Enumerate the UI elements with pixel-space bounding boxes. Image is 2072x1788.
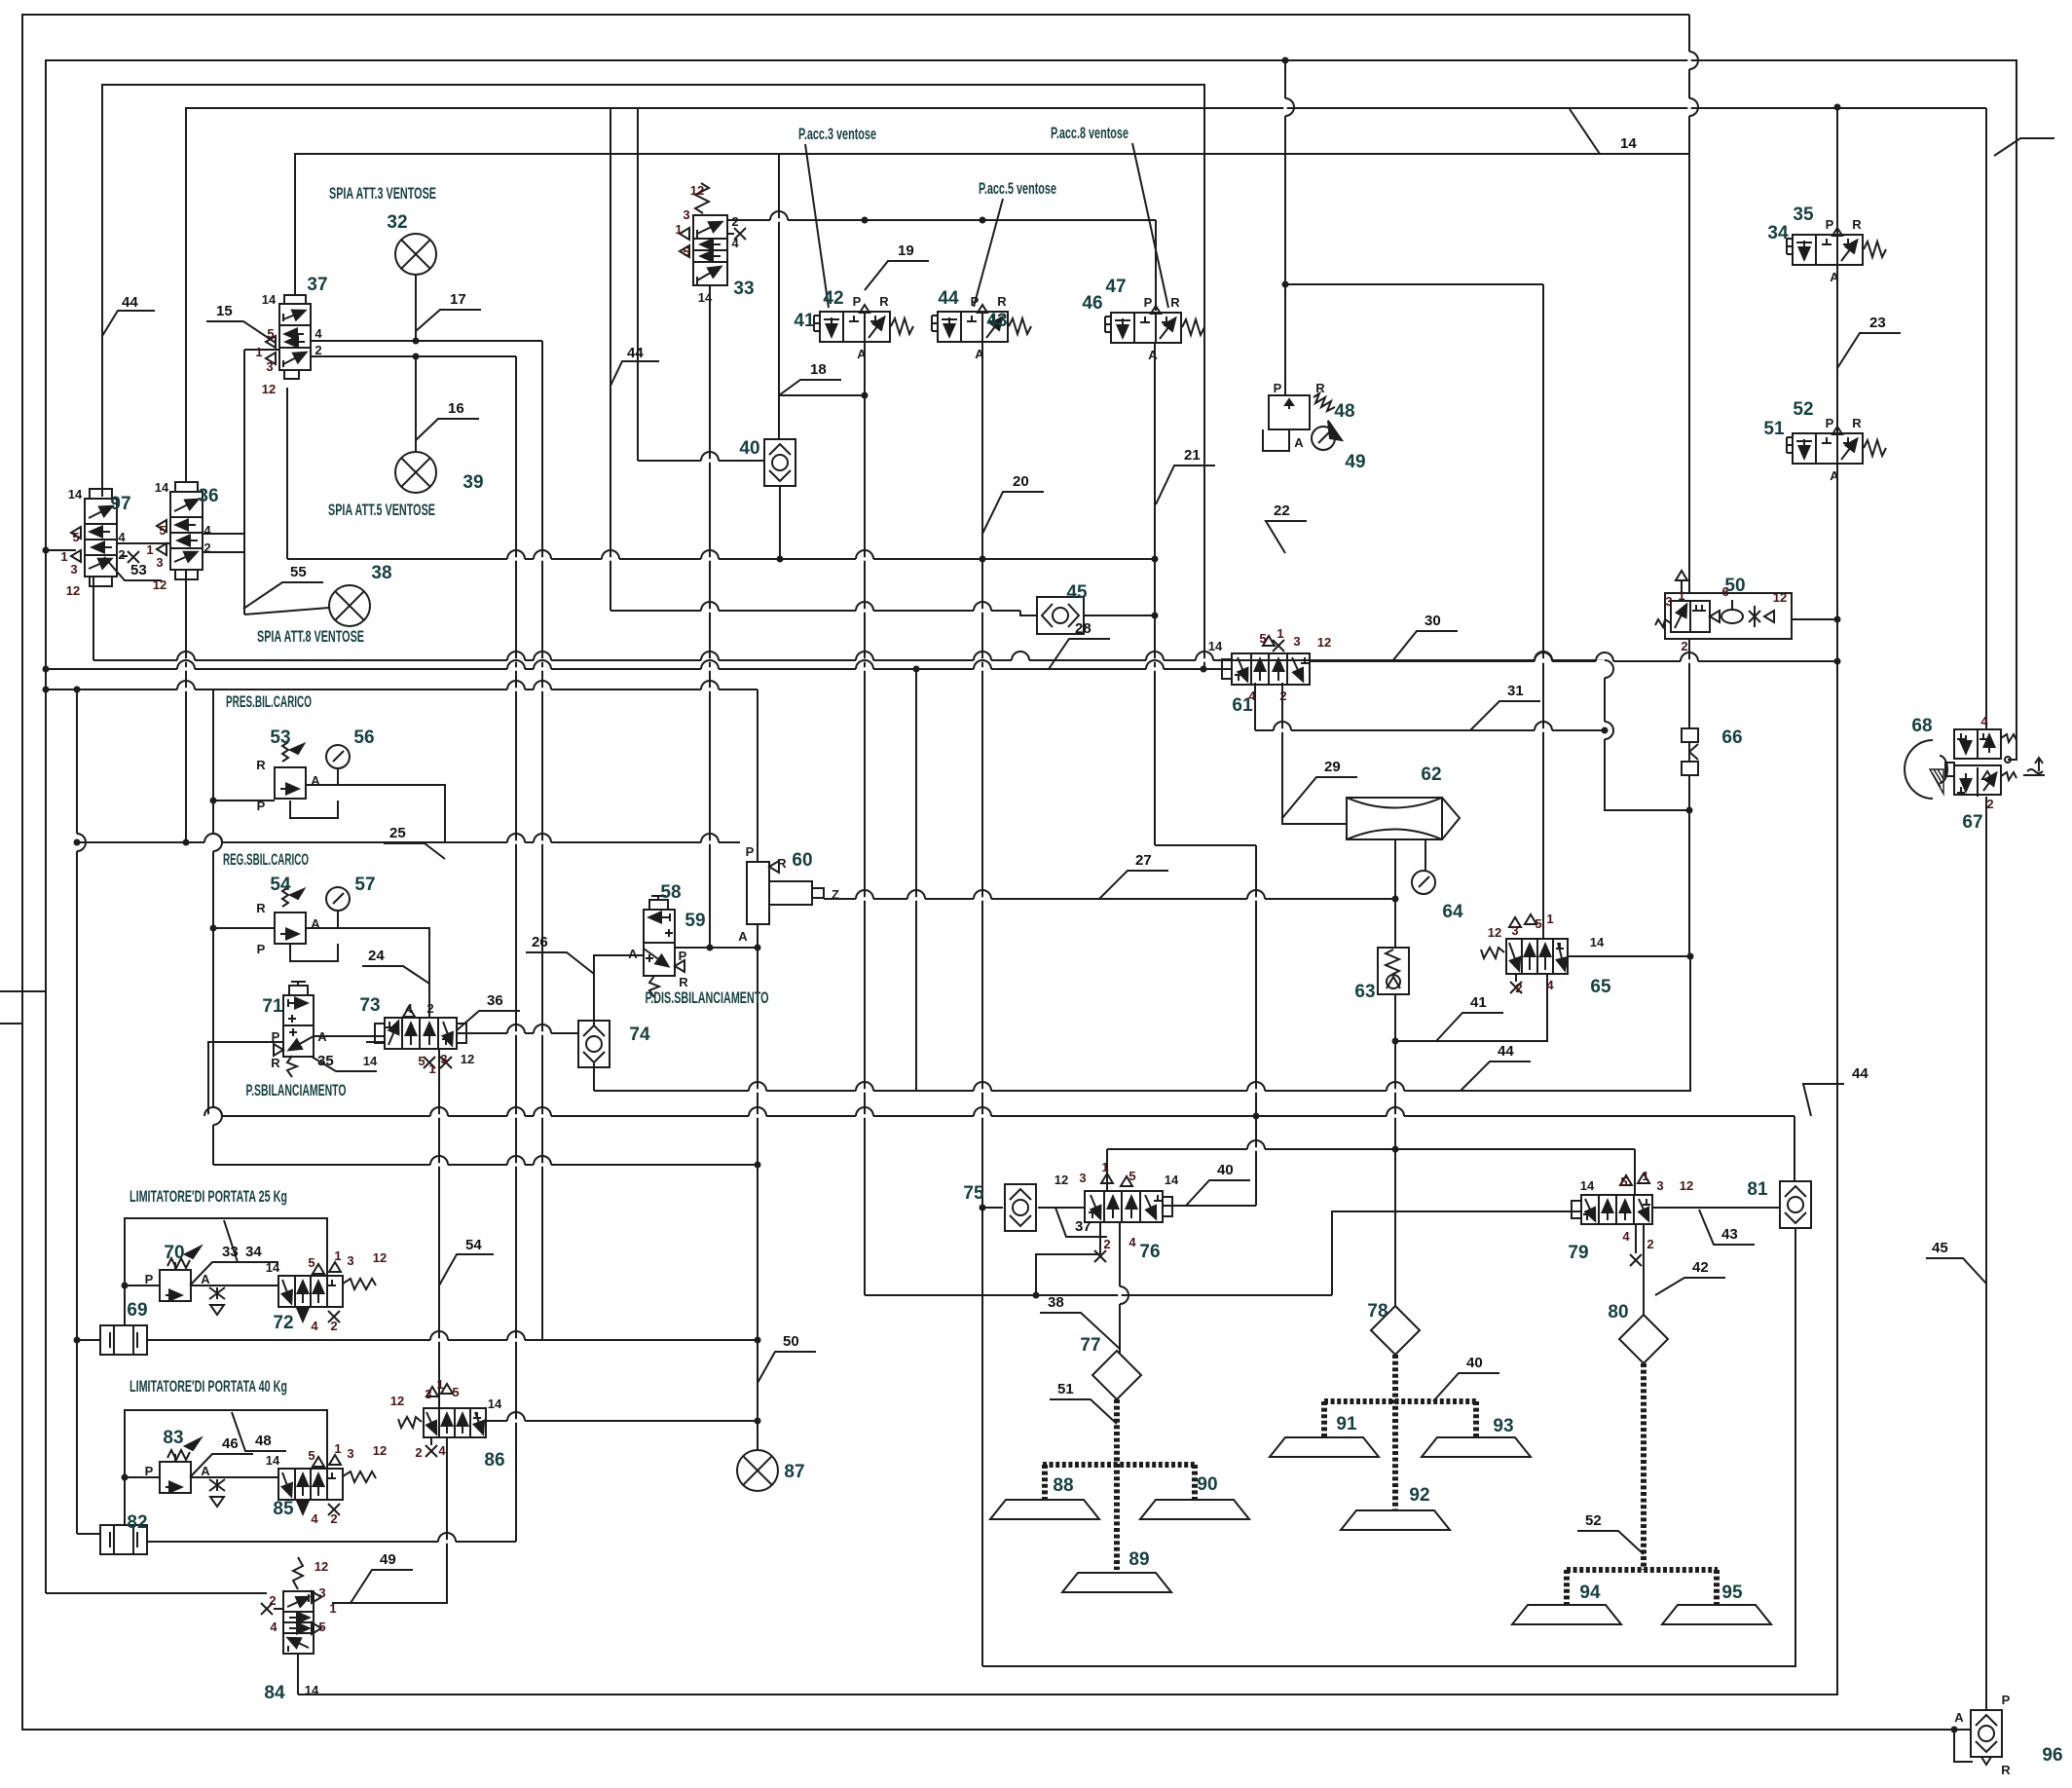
wire valve50 out — [1792, 618, 1837, 620]
wire h1196 — [213, 1164, 758, 1166]
flow control 72-circuit — [209, 1287, 225, 1315]
svg-text:2: 2 — [314, 343, 321, 357]
wire h708 — [46, 689, 758, 690]
svg-text:4: 4 — [1546, 978, 1554, 992]
wire reg54 loop — [290, 944, 338, 961]
svg-text:1: 1 — [329, 1601, 336, 1616]
wire h1240 — [1038, 1207, 1085, 1209]
wire v295 — [286, 388, 288, 559]
wire frame 4 — [186, 108, 1986, 482]
svg-text:3: 3 — [1511, 923, 1518, 938]
svg-text:40: 40 — [739, 438, 759, 459]
svg-text:41: 41 — [1470, 994, 1487, 1011]
svg-text:17: 17 — [450, 291, 466, 308]
svg-text:P.acc.3 ventose: P.acc.3 ventose — [798, 125, 876, 143]
venturi 62 — [1347, 798, 1460, 839]
lamp 87 — [737, 1450, 778, 1491]
svg-text:38: 38 — [371, 563, 391, 583]
wire h679 — [1310, 660, 1837, 662]
svg-text:48: 48 — [1334, 401, 1354, 422]
svg-text:2: 2 — [203, 540, 210, 555]
svg-text:56: 56 — [353, 727, 374, 748]
svg-text:1: 1 — [334, 1248, 341, 1263]
svg-text:62: 62 — [1421, 764, 1441, 785]
valve 43 44 (3/2 solenoid) — [932, 305, 1031, 342]
svg-text:P: P — [853, 294, 862, 309]
wire v1433 — [1394, 994, 1396, 1307]
svg-text:P.DIS.SBILANCIAMENTO: P.DIS.SBILANCIAMENTO — [646, 988, 769, 1007]
svg-text:1: 1 — [1642, 1169, 1648, 1183]
cup 95 — [1662, 1605, 1771, 1624]
rotary valve 67 68 — [1905, 729, 2045, 799]
wire h1517 — [125, 1476, 160, 1478]
svg-text:1: 1 — [255, 345, 262, 359]
svg-text:4: 4 — [270, 1620, 277, 1634]
svg-text:P: P — [1826, 416, 1834, 430]
svg-text:R: R — [2001, 1763, 2011, 1777]
svg-text:1: 1 — [1678, 588, 1684, 603]
cup 93 — [1422, 1437, 1531, 1457]
svg-text:36: 36 — [487, 992, 503, 1009]
svg-text:P: P — [2002, 1693, 2011, 1707]
wire h865 — [77, 841, 740, 843]
svg-text:4: 4 — [311, 1319, 318, 1333]
svg-text:76: 76 — [1139, 1242, 1160, 1262]
svg-text:12: 12 — [1054, 1173, 1068, 1187]
wire h1240 — [982, 1207, 1003, 1209]
svg-text:4: 4 — [1128, 1235, 1136, 1249]
svg-text:R: R — [256, 758, 266, 772]
wire v655 — [637, 108, 639, 461]
svg-text:96: 96 — [2042, 1745, 2062, 1766]
valve 61 (5/2 horizontal) — [1222, 636, 1310, 685]
svg-text:A: A — [1954, 1710, 1964, 1725]
wire h1320 — [125, 1285, 160, 1286]
wire v800 — [778, 154, 780, 440]
svg-text:A: A — [975, 347, 984, 361]
wire valve60 P riser — [757, 689, 758, 862]
svg-text:R: R — [777, 856, 787, 871]
svg-text:87: 87 — [784, 1462, 804, 1482]
svg-text:2: 2 — [118, 547, 125, 562]
filter 78 — [1371, 1306, 1420, 1355]
regulator 54 — [275, 887, 306, 944]
wire h359 — [244, 349, 279, 351]
svg-text:1: 1 — [436, 1377, 443, 1392]
valve 97 (5/2 vertical) — [71, 489, 139, 586]
check valve 74 — [578, 1021, 610, 1067]
svg-text:29: 29 — [1324, 759, 1341, 775]
svg-text:2: 2 — [269, 1593, 276, 1608]
leader lines for P.acc texts — [805, 143, 1168, 308]
wire v1735 — [1688, 639, 1690, 728]
svg-text:4: 4 — [311, 1511, 318, 1526]
svg-text:4: 4 — [1248, 689, 1256, 703]
svg-text:50: 50 — [783, 1333, 799, 1350]
svg-text:R: R — [1852, 416, 1862, 430]
svg-text:3: 3 — [1079, 1171, 1086, 1185]
valve 85 (5/2 horizontal spring right) — [278, 1455, 376, 1515]
svg-text:12: 12 — [390, 1394, 404, 1408]
svg-text:2: 2 — [330, 1511, 337, 1526]
svg-text:R: R — [997, 294, 1007, 309]
leader number labels — [102, 109, 2054, 1603]
svg-text:59: 59 — [684, 911, 705, 931]
cup 92 — [1341, 1510, 1450, 1530]
wire bus1330 left half — [865, 1294, 1332, 1296]
wire wire valve67 to check96 — [1985, 797, 1987, 1711]
svg-text:5: 5 — [1128, 1169, 1135, 1183]
svg-text:SPIA ATT.3 VENTOSE: SPIA ATT.3 VENTOSE — [329, 184, 436, 203]
wire valve59 A to check74 — [594, 955, 644, 1025]
valve 34 35 (3/2 solenoid) — [1787, 228, 1886, 265]
wire valve76 pilot wire — [1163, 1205, 1256, 1207]
wire h1376 — [147, 1339, 758, 1341]
wire lamp32 drop — [415, 275, 417, 341]
svg-text:26: 26 — [532, 934, 548, 950]
wire h406 — [779, 394, 865, 396]
cylinder 69 — [100, 1325, 147, 1355]
svg-text:71: 71 — [262, 996, 283, 1017]
svg-text:LIMITATORE′DI PORTATA 25 Kg: LIMITATORE′DI PORTATA 25 Kg — [129, 1187, 287, 1206]
wire v1150 — [1119, 1222, 1121, 1353]
svg-text:28: 28 — [1075, 620, 1091, 637]
svg-text:P: P — [971, 294, 980, 309]
wire frame 5 to valve37 pilot — [295, 154, 1689, 295]
check valve 45 — [1037, 597, 1084, 634]
svg-text:97: 97 — [110, 494, 130, 514]
svg-text:R: R — [879, 294, 889, 309]
svg-text:A: A — [1148, 348, 1158, 362]
wire h1064 — [314, 1035, 385, 1037]
wire valve76-2 riser — [1036, 1254, 1100, 1295]
wire v627 — [610, 108, 611, 611]
wire reg53 A wire — [307, 785, 445, 842]
svg-text:55: 55 — [290, 564, 307, 580]
svg-text:44: 44 — [1498, 1043, 1514, 1060]
check valve 40 — [764, 439, 795, 486]
svg-text:P: P — [145, 1464, 154, 1478]
svg-text:1: 1 — [334, 1441, 341, 1456]
svg-text:69: 69 — [127, 1300, 147, 1321]
svg-text:81: 81 — [1747, 1179, 1768, 1200]
svg-text:33: 33 — [222, 1244, 239, 1260]
svg-text:5: 5 — [452, 1385, 459, 1399]
wire left stub b — [0, 1023, 22, 1024]
svg-text:43: 43 — [986, 311, 1007, 331]
wire valve79 pilot wire — [1332, 1211, 1581, 1295]
svg-text:P: P — [257, 942, 266, 956]
wire valve47 P riser — [1155, 220, 1157, 311]
valve 79 (5/2 horizontal mirrored) — [1572, 1173, 1652, 1266]
svg-text:5: 5 — [308, 1448, 314, 1463]
valve 41 42 (3/2 solenoid) — [814, 305, 913, 342]
wire h567 — [203, 551, 244, 553]
regulator 70 — [160, 1247, 201, 1301]
lamp 32 SPIA ATT.3 — [395, 234, 436, 275]
svg-text:P: P — [257, 799, 266, 813]
wire valve60 A — [757, 924, 758, 948]
wire h366 — [311, 355, 516, 357]
svg-text:4: 4 — [405, 1001, 413, 1016]
wire h1459 — [486, 1420, 758, 1422]
svg-text:12: 12 — [373, 1250, 387, 1265]
wire h565 — [46, 549, 76, 551]
svg-text:2: 2 — [1681, 639, 1687, 653]
wire h973 — [675, 947, 758, 949]
svg-text:16: 16 — [448, 400, 464, 417]
svg-text:44: 44 — [938, 288, 959, 309]
svg-text:35: 35 — [317, 1053, 334, 1069]
regulator 48 — [1263, 393, 1342, 451]
svg-text:64: 64 — [1442, 902, 1463, 922]
svg-text:57: 57 — [354, 875, 375, 895]
svg-text:2: 2 — [426, 1001, 433, 1016]
wire wire 41 — [1395, 974, 1547, 1041]
svg-text:1: 1 — [1546, 912, 1553, 926]
svg-text:51: 51 — [1057, 1381, 1074, 1397]
check valve 75 — [1005, 1184, 1036, 1231]
wire lamp39 drop — [415, 356, 417, 452]
wire valve97-2 stub — [121, 555, 128, 557]
svg-text:22: 22 — [1274, 503, 1290, 519]
wire h350 — [311, 340, 542, 342]
svg-text:R: R — [256, 901, 266, 915]
svg-text:2: 2 — [1986, 797, 1993, 811]
svg-text:2: 2 — [330, 1319, 337, 1333]
wire bus678 end corner — [1605, 660, 1689, 810]
svg-text:33: 33 — [733, 279, 754, 299]
svg-text:18: 18 — [810, 361, 827, 378]
wire valve76-2 port — [1099, 1222, 1101, 1254]
svg-text:12: 12 — [690, 183, 704, 198]
svg-text:R: R — [271, 1056, 280, 1070]
svg-text:3: 3 — [347, 1253, 353, 1268]
wire h627 — [610, 610, 1020, 612]
svg-text:38: 38 — [1048, 1294, 1064, 1311]
svg-text:42: 42 — [1692, 1259, 1709, 1276]
svg-text:14: 14 — [1620, 135, 1637, 152]
svg-text:LIMITATORE′DI PORTATA 40 Kg: LIMITATORE′DI PORTATA 40 Kg — [129, 1377, 287, 1396]
svg-text:R: R — [1315, 381, 1325, 395]
valve 76 (5/2 horizontal) — [1085, 1173, 1172, 1262]
svg-text:5: 5 — [318, 1620, 325, 1634]
svg-text:42: 42 — [823, 288, 843, 309]
valve 37 (5/2 vertical) — [266, 295, 311, 379]
svg-text:14: 14 — [698, 290, 713, 305]
svg-text:1: 1 — [1101, 1160, 1108, 1174]
wire box 25kg — [125, 1218, 327, 1326]
svg-text:80: 80 — [1608, 1302, 1628, 1322]
wire cyl82 left wire — [77, 1533, 100, 1535]
svg-text:14: 14 — [488, 1397, 502, 1411]
wire v530 — [515, 356, 517, 1542]
svg-text:44: 44 — [1852, 1065, 1868, 1082]
wire valve61-2 to venturi — [1282, 683, 1347, 824]
lamp 55 SPIA ATT.8 — [329, 585, 370, 626]
svg-text:2: 2 — [731, 214, 738, 229]
gauge 56 — [326, 745, 350, 768]
wire h822 — [213, 800, 275, 801]
svg-text:A: A — [311, 773, 320, 788]
svg-text:37: 37 — [307, 275, 327, 295]
wire v1735 — [1688, 776, 1690, 956]
cup 89 — [1062, 1573, 1171, 1592]
valve 58 59 (3/2 vertical P.DIS.SBIL) — [644, 896, 684, 997]
flow control 85-circuit — [209, 1479, 225, 1507]
svg-text:52: 52 — [1585, 1512, 1602, 1529]
hatched tube group 77: 88 89 90 — [1043, 1399, 1195, 1570]
svg-text:4: 4 — [1622, 1229, 1630, 1244]
wire v1009 — [981, 343, 983, 1666]
svg-text:12: 12 — [1317, 635, 1331, 650]
wire h687 — [46, 668, 1232, 670]
wire h1320 — [191, 1285, 278, 1286]
svg-text:A: A — [317, 1029, 327, 1044]
wire check45 feed elbow — [1020, 611, 1037, 615]
wire v1648 — [1604, 660, 1606, 810]
svg-text:83: 83 — [163, 1428, 183, 1448]
wire valve61-4 drop — [1254, 683, 1256, 730]
svg-text:44: 44 — [627, 345, 644, 361]
wire lamp55 wire — [244, 608, 329, 615]
svg-text:72: 72 — [273, 1313, 293, 1333]
svg-text:A: A — [1830, 468, 1839, 483]
wire h1636 — [46, 1592, 267, 1594]
svg-text:SPIA ATT.5 VENTOSE: SPIA ATT.5 VENTOSE — [328, 501, 435, 519]
wire x1736 corner to bus1120 — [594, 956, 1690, 1091]
svg-text:3: 3 — [440, 1052, 447, 1066]
wire valve73 pilot stub — [366, 1041, 385, 1043]
wire valve79-2 to filter80 — [1643, 1224, 1645, 1315]
svg-text:45: 45 — [1066, 582, 1088, 603]
svg-text:90: 90 — [1197, 1474, 1217, 1495]
wire wire 44 return loop — [982, 1228, 1795, 1666]
svg-text:5: 5 — [267, 326, 274, 341]
wire v79 — [76, 689, 78, 1534]
wire v219 — [212, 689, 214, 1165]
svg-text:A: A — [857, 347, 867, 361]
svg-text:5: 5 — [308, 1255, 314, 1270]
svg-text:3: 3 — [70, 562, 77, 577]
svg-text:3: 3 — [156, 555, 163, 570]
svg-text:P.acc.8 ventose: P.acc.8 ventose — [1051, 124, 1128, 142]
wire h1061 — [457, 1032, 578, 1034]
svg-text:12: 12 — [1773, 590, 1787, 605]
wire venturi left drop — [1394, 839, 1396, 948]
valve 65 (5/2 horizontal spring left) — [1481, 914, 1568, 993]
svg-text:2: 2 — [415, 1445, 422, 1460]
wire x1887 P.acc8 drop c — [298, 463, 1837, 1695]
svg-text:R: R — [679, 975, 688, 989]
svg-text:14: 14 — [1580, 1178, 1595, 1193]
wire v1735 — [1688, 15, 1690, 593]
svg-text:47: 47 — [1105, 277, 1126, 297]
wire check74 jog — [577, 1033, 579, 1038]
svg-text:2: 2 — [1515, 981, 1522, 995]
wire v1186 — [1154, 343, 1156, 845]
wire valve84-1 to valve86-4 — [332, 1437, 447, 1603]
wire hop whiteouts — [77, 52, 1698, 1542]
svg-text:15: 15 — [216, 303, 233, 319]
wire v1585 — [1542, 284, 1544, 939]
svg-text:30: 30 — [1424, 613, 1441, 629]
svg-text:P: P — [1144, 295, 1153, 310]
svg-text:24: 24 — [368, 948, 385, 964]
svg-text:A: A — [1830, 270, 1839, 284]
svg-text:31: 31 — [1507, 683, 1524, 699]
cylinder 82 — [100, 1525, 147, 1554]
wire h1146 — [208, 1115, 1794, 1117]
cup 90 — [1140, 1500, 1249, 1519]
svg-text:40: 40 — [1466, 1355, 1483, 1371]
wire valve84-14 drop — [297, 1654, 299, 1695]
svg-text:70: 70 — [164, 1243, 184, 1263]
svg-text:46: 46 — [1082, 293, 1102, 314]
svg-text:34: 34 — [245, 1244, 262, 1260]
svg-text:95: 95 — [1721, 1583, 1743, 1603]
svg-text:2: 2 — [1103, 1237, 1110, 1251]
svg-text:36: 36 — [198, 486, 218, 506]
svg-text:5: 5 — [159, 523, 166, 538]
svg-text:84: 84 — [264, 1683, 285, 1703]
svg-text:SPIA ATT.8 VENTOSE: SPIA ATT.8 VENTOSE — [257, 627, 364, 646]
svg-text:4: 4 — [731, 236, 739, 250]
wire y868 link — [1155, 844, 1256, 846]
svg-text:1: 1 — [1276, 626, 1283, 641]
wire h548 — [203, 533, 244, 535]
svg-text:78: 78 — [1367, 1301, 1387, 1322]
svg-text:52: 52 — [1793, 399, 1813, 420]
wire h1240 — [1652, 1207, 1780, 1209]
cup 91 — [1270, 1437, 1379, 1457]
svg-text:60: 60 — [792, 850, 812, 871]
svg-text:P: P — [272, 1029, 280, 1044]
wire h1180 — [1107, 1148, 1635, 1150]
svg-text:4: 4 — [203, 523, 211, 538]
wire h953 — [213, 927, 275, 929]
wire h923 — [824, 898, 1395, 900]
svg-text:5: 5 — [1620, 1174, 1627, 1189]
filter 80 — [1619, 1315, 1668, 1363]
svg-text:48: 48 — [255, 1433, 272, 1449]
wire v801 — [779, 486, 781, 559]
svg-text:3: 3 — [347, 1446, 353, 1461]
wire box 40kg — [125, 1410, 327, 1525]
svg-text:14: 14 — [305, 1683, 319, 1697]
svg-text:14: 14 — [266, 1260, 280, 1275]
svg-text:14: 14 — [363, 1054, 378, 1068]
svg-text:4: 4 — [438, 1443, 446, 1458]
svg-text:89: 89 — [1128, 1549, 1149, 1570]
svg-text:58: 58 — [660, 882, 681, 903]
svg-text:R: R — [1852, 217, 1862, 232]
svg-text:P: P — [1274, 381, 1282, 395]
wire h574 — [287, 558, 1155, 560]
wire v729 — [709, 285, 711, 948]
svg-text:12: 12 — [373, 1443, 387, 1458]
wire valve76-1 riser — [1106, 1149, 1108, 1191]
svg-text:P: P — [1826, 217, 1834, 232]
svg-text:12: 12 — [1488, 925, 1501, 940]
svg-text:5: 5 — [418, 1054, 425, 1068]
svg-text:34: 34 — [1767, 223, 1789, 243]
valve 51 52 (3/2 solenoid) — [1787, 427, 1886, 464]
svg-text:12: 12 — [153, 577, 166, 592]
wire h226 — [727, 219, 1156, 221]
svg-text:P: P — [679, 949, 687, 963]
svg-text:79: 79 — [1568, 1243, 1588, 1263]
